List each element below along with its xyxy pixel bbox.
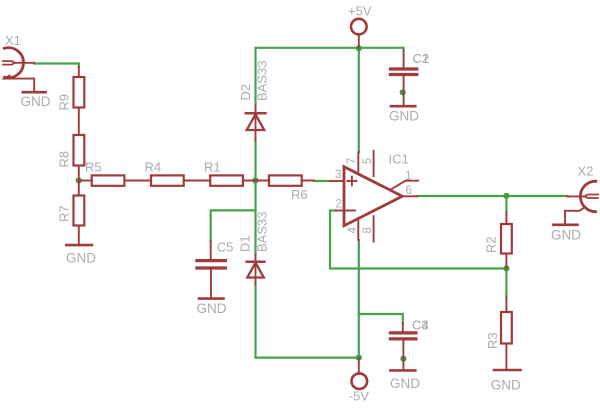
svg-text:GND: GND bbox=[551, 228, 581, 243]
svg-text:6: 6 bbox=[406, 185, 412, 197]
svg-text:-5V: -5V bbox=[349, 389, 370, 404]
svg-text:GND: GND bbox=[197, 301, 227, 316]
svg-text:R3: R3 bbox=[485, 332, 500, 349]
svg-text:X1: X1 bbox=[5, 33, 21, 48]
svg-text:R9: R9 bbox=[57, 94, 72, 111]
svg-text:C5: C5 bbox=[217, 240, 234, 255]
svg-text:GND: GND bbox=[21, 94, 51, 109]
svg-text:IC1: IC1 bbox=[389, 152, 409, 167]
svg-text:R1: R1 bbox=[204, 160, 221, 175]
svg-text:GND: GND bbox=[491, 378, 521, 393]
svg-text:R4: R4 bbox=[145, 160, 162, 175]
svg-text:4: 4 bbox=[347, 227, 359, 234]
svg-text:8: 8 bbox=[362, 227, 374, 233]
svg-text:GND: GND bbox=[66, 251, 96, 266]
svg-text:GND: GND bbox=[390, 376, 420, 391]
svg-text:X2: X2 bbox=[578, 164, 594, 179]
svg-text:D2: D2 bbox=[238, 84, 253, 101]
svg-text:C2: C2 bbox=[413, 51, 430, 66]
svg-text:D1: D1 bbox=[238, 235, 253, 252]
svg-text:BAS33: BAS33 bbox=[255, 61, 270, 101]
svg-text:R7: R7 bbox=[57, 205, 72, 222]
svg-text:7: 7 bbox=[346, 158, 358, 164]
svg-text:R2: R2 bbox=[484, 236, 499, 253]
svg-text:BAS33: BAS33 bbox=[255, 212, 270, 252]
svg-text:R5: R5 bbox=[85, 160, 102, 175]
svg-text:+5V: +5V bbox=[348, 4, 372, 19]
svg-text:GND: GND bbox=[389, 109, 419, 124]
svg-text:R8: R8 bbox=[57, 151, 72, 168]
svg-text:1: 1 bbox=[405, 171, 411, 183]
svg-text:3: 3 bbox=[335, 169, 341, 181]
svg-text:C4: C4 bbox=[412, 318, 429, 333]
svg-text:5: 5 bbox=[362, 158, 374, 164]
svg-text:R6: R6 bbox=[291, 187, 308, 202]
svg-text:2: 2 bbox=[336, 199, 342, 211]
